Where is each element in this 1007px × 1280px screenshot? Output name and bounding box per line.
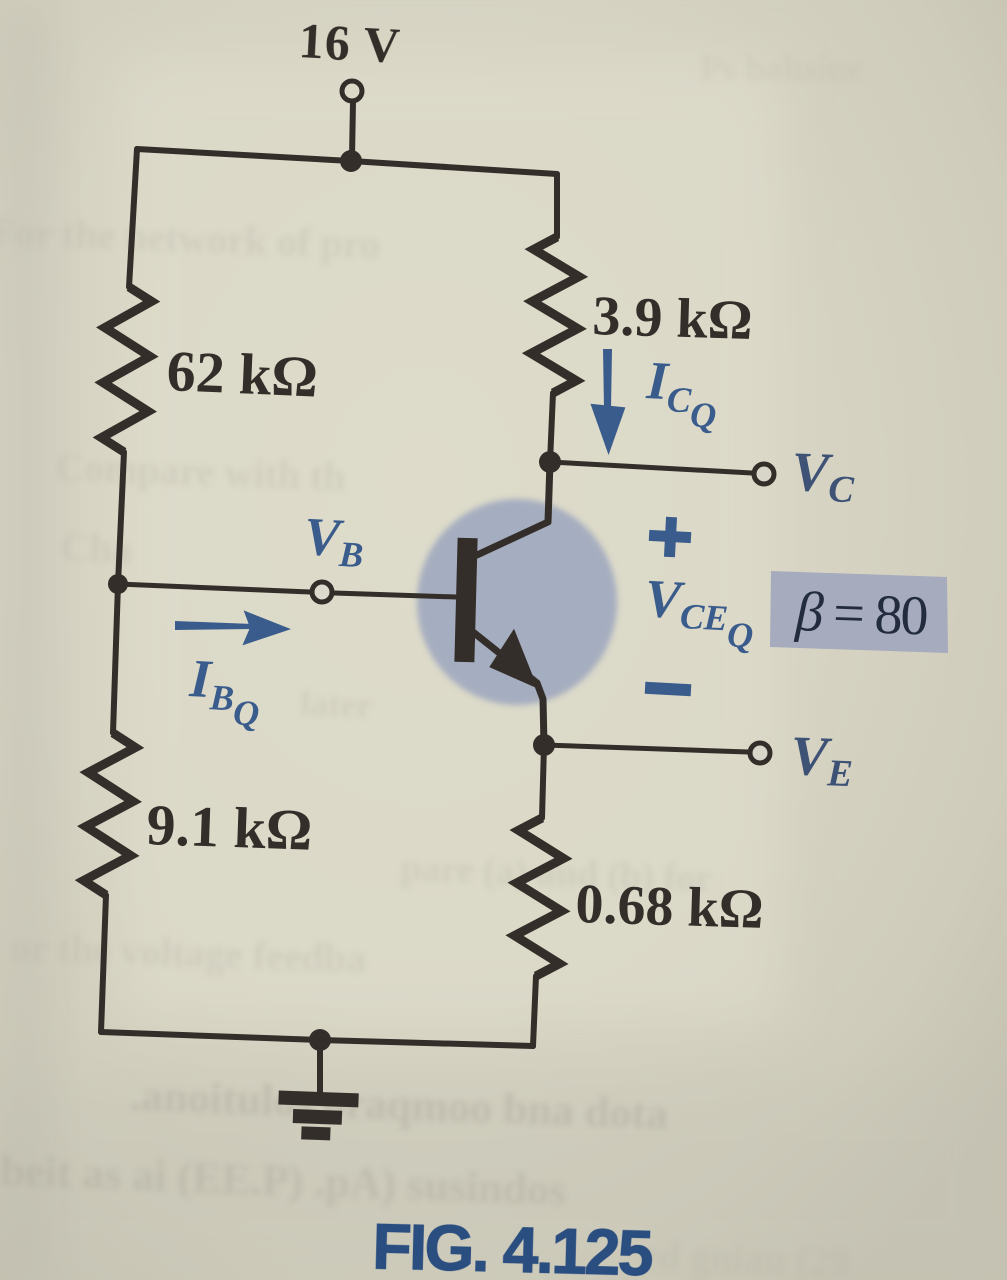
svg-text:62 kΩ: 62 kΩ <box>165 338 319 410</box>
wire R2 bottom lead <box>101 895 106 1032</box>
wire to VE terminal <box>544 745 748 752</box>
terminal VB <box>312 582 332 602</box>
terminal VC <box>754 464 774 484</box>
resistor RC 3.9k <box>531 237 579 393</box>
resistor R1 62k <box>101 287 151 452</box>
ICQ current arrow <box>590 349 626 455</box>
wire RC bottom lead <box>550 393 553 462</box>
wire R2 top lead <box>113 584 118 733</box>
svg-text:β = 80: β = 80 <box>794 581 930 648</box>
ground <box>317 1040 323 1095</box>
wire bottom rail <box>101 1032 533 1046</box>
svg-text:0.68 kΩ: 0.68 kΩ <box>575 873 765 941</box>
supply terminal 16V <box>342 81 362 101</box>
emitter arrowhead <box>488 627 542 688</box>
minus sign <box>645 682 692 696</box>
wire emitter lead <box>473 632 544 745</box>
transistor base bar <box>454 538 477 662</box>
resistor RE 0.68k <box>515 818 564 976</box>
svg-text:9.1 kΩ: 9.1 kΩ <box>146 792 314 863</box>
node emitter <box>533 734 555 756</box>
node collector <box>539 451 561 473</box>
svg-text:ed gniau (29: ed gniau (29 <box>640 1232 850 1280</box>
wire top rail VCC <box>137 149 557 174</box>
svg-text:16 V: 16 V <box>297 12 401 73</box>
wire RC top lead <box>554 174 560 237</box>
svg-text:FIG. 4.125: FIG. 4.125 <box>372 1210 655 1280</box>
wire collector lead <box>477 462 550 555</box>
wire supply stub <box>352 102 353 158</box>
wire base lead <box>118 584 310 592</box>
svg-text:3.9 kΩ: 3.9 kΩ <box>592 285 754 352</box>
wire R1 bottom lead to base node <box>118 452 124 584</box>
node: top rail junction <box>340 150 362 172</box>
wire R1 top lead <box>129 149 137 287</box>
transistor Q1 highlight circle <box>417 499 617 705</box>
terminal VE <box>750 743 770 763</box>
beta = 80 highlight box <box>770 571 948 653</box>
wire base lead right of VB terminal <box>334 593 456 597</box>
IBQ current arrow <box>175 610 292 647</box>
node ground junction <box>309 1029 331 1051</box>
wire RE top lead <box>542 745 544 818</box>
svg-text:Ps bahsine: Ps bahsine <box>700 48 863 88</box>
resistor R2 9.1k <box>84 733 136 895</box>
node VB left junction <box>108 574 128 594</box>
svg-text:later: later <box>300 683 373 725</box>
plus sign <box>648 516 692 558</box>
wire to VC terminal <box>550 462 752 473</box>
wire RE bottom lead <box>533 976 536 1046</box>
